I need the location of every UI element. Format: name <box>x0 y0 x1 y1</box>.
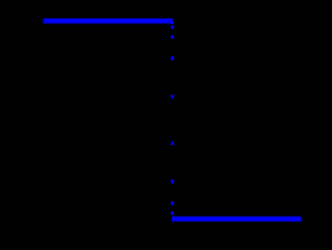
transition sample dot 9 <box>170 211 174 215</box>
transition sample dot 2 <box>170 25 174 29</box>
transition sample dot 4 <box>170 56 174 61</box>
transition sample dot 7 <box>170 179 174 184</box>
curve lower branch (y=0 plateau) <box>172 216 302 223</box>
curve upper branch (y=1 plateau) <box>42 18 173 25</box>
lower branch end step (jagged antialiased tip) <box>299 219 303 221</box>
transition sample dot 1 (merged with upper branch end) <box>170 21 174 24</box>
transition sample dot 6 <box>170 141 174 145</box>
transition sample dot 3 <box>170 35 174 39</box>
transition sample dot 8 <box>170 201 174 206</box>
transition sample dot 5 <box>170 94 174 98</box>
